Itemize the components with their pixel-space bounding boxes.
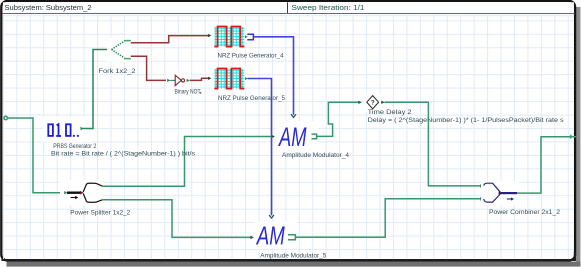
svg-text:Fork 1x2_2: Fork 1x2_2 (99, 68, 137, 75)
wire: fork out2 to binary NOT (131, 56, 166, 80)
wire: NRZ4 to AM4 top input (253, 37, 293, 115)
wire: PRBS out up to fork (81, 50, 112, 129)
arrow into time delay input (358, 101, 362, 104)
svg-text:Power Combiner 2x1_2: Power Combiner 2x1_2 (489, 209, 561, 216)
arrow into combiner in1 (480, 184, 483, 188)
NRZ pulse generator 5 icon (213, 67, 286, 102)
svg-text:Amplitude Modulator_5: Amplitude Modulator_5 (260, 252, 327, 259)
wire: time delay to power combiner in1 (385, 102, 481, 186)
svg-text:Subsystem: Subsystem_2: Subsystem: Subsystem_2 (5, 5, 92, 12)
wire: AM5 out to power combiner in2 (295, 199, 480, 238)
input port 1 (4, 116, 7, 119)
wire: combiner out to subsystem output port (517, 137, 576, 193)
NRZ4 output port (245, 34, 253, 40)
wire: port 1 to power splitter (7, 118, 62, 193)
arrow into NRZ5 input (208, 77, 211, 80)
PRBS generator 2 icon (43, 117, 195, 158)
binary NOT gate (166, 71, 201, 95)
amplitude modulator 5 (254, 220, 327, 259)
NRZ pulse generator 4 icon (213, 25, 284, 59)
svg-text:Binary NOT: Binary NOT (175, 88, 201, 95)
time delay output port (381, 101, 385, 104)
svg-text:Delay = ( 2^(StageNumber-1) )*: Delay = ( 2^(StageNumber-1) )* (1- 1/Pul… (368, 117, 564, 124)
power combiner 2x1_2 (481, 181, 561, 216)
arrow into AM5 left input (250, 236, 254, 240)
output port arrow (570, 134, 574, 139)
arrow into combiner in2 (480, 197, 483, 201)
svg-text:AM: AM (255, 220, 285, 250)
wire: binary NOT to NRZ pulse generator 5 (190, 78, 208, 80)
arrow into AM4 left input (272, 135, 276, 139)
arrow into AM5 top input (269, 215, 274, 218)
svg-text:Bit rate = Bit rate / ( 2^(Sta: Bit rate = Bit rate / ( 2^(StageNumber-1… (51, 151, 195, 158)
fork 1x2_2 (99, 38, 137, 75)
svg-text:Time Delay 2: Time Delay 2 (368, 109, 413, 116)
power splitter 1x2_2 (60, 180, 131, 216)
svg-text:?: ? (371, 100, 375, 107)
wire: fork out1 to NRZ pulse generator 4 (131, 36, 208, 43)
amplitude modulator 4 (276, 121, 350, 159)
time delay 2 (364, 94, 564, 124)
wire: NRZ5 to AM5 top input (248, 79, 272, 216)
svg-text:AM: AM (278, 122, 307, 152)
wire: splitter out1 to amplitude modulator 4 (102, 137, 271, 187)
wire: AM4 out to time delay (317, 102, 359, 136)
svg-text:Power Splitter 1x2_2: Power Splitter 1x2_2 (70, 209, 131, 216)
svg-text:NRZ Pulse Generator_5: NRZ Pulse Generator_5 (218, 95, 285, 102)
NRZ5 output port (245, 77, 248, 80)
arrow into AM4 top input (291, 114, 296, 117)
svg-text:PRBS Generator 2: PRBS Generator 2 (53, 143, 96, 150)
svg-text:Amplitude Modulator_4: Amplitude Modulator_4 (282, 152, 350, 159)
svg-text:Sweep Iteration: 1/1: Sweep Iteration: 1/1 (292, 5, 365, 12)
svg-text:NRZ Pulse Generator_4: NRZ Pulse Generator_4 (218, 52, 284, 59)
title bar (3, 2, 575, 13)
wire: splitter out2 to amplitude modulator 5 (102, 200, 250, 238)
arrow into NRZ4 input (208, 34, 211, 37)
